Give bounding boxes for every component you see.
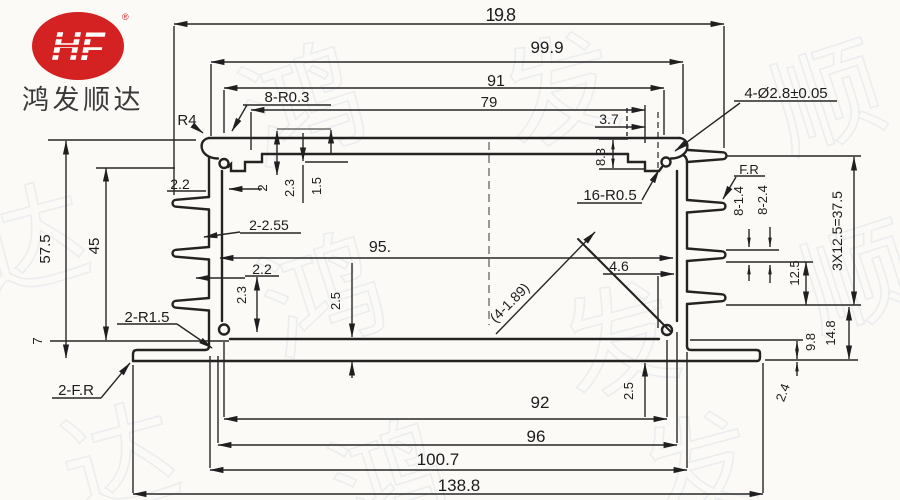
small dim line x331 — [330, 130, 332, 155]
svg-text:2.2: 2.2 — [252, 261, 272, 277]
right fin 4 — [687, 292, 725, 305]
svg-text:96: 96 — [527, 427, 546, 446]
dim 96 line — [218, 444, 677, 446]
svg-text:4.6: 4.6 — [609, 258, 629, 274]
svg-text:14.8: 14.8 — [823, 320, 838, 345]
dim 4.6 drop line — [657, 276, 659, 328]
bottom plate right end — [756, 350, 760, 357]
callout 16-R0.5 leader — [642, 170, 659, 200]
right channel centerline — [657, 112, 659, 168]
svg-text:138.8: 138.8 — [438, 476, 481, 495]
dim 91 line — [224, 87, 664, 89]
bottom plate top edge right — [687, 346, 756, 350]
dim 3.7 underline and arrow — [595, 126, 645, 128]
svg-text:3.7: 3.7 — [599, 111, 619, 127]
small dim crossbar y129 — [277, 128, 331, 130]
dim 2.2 top arrow — [229, 188, 262, 190]
dim 2-2.55 leader — [204, 232, 240, 237]
callout F.R underline — [734, 175, 765, 177]
dim 8-1.4 arrow upper — [748, 229, 750, 247]
dim 2.5 left line upper — [351, 263, 353, 337]
dim 2.5 bottom right arrow — [644, 363, 646, 417]
svg-text:2.3: 2.3 — [234, 286, 249, 304]
dim 19.8 line — [174, 23, 724, 25]
left wall outer segment 4 — [205, 311, 209, 351]
watermark — [216, 0, 384, 198]
ext x667 — [666, 340, 668, 417]
top plate bottom edge — [262, 153, 628, 155]
svg-text:2-F.R: 2-F.R — [58, 382, 94, 399]
dim 57.5 top extension — [48, 139, 196, 141]
callout 4-02.8 underline — [734, 100, 837, 102]
svg-text:100.7: 100.7 — [417, 450, 460, 469]
dim 9.8 line — [796, 341, 798, 359]
dim 45 line — [105, 168, 107, 340]
svg-text:91: 91 — [487, 73, 505, 90]
svg-text:8-2.4: 8-2.4 — [755, 185, 770, 215]
right wall outer top stub — [683, 155, 687, 162]
dim 8.3 top extension — [599, 138, 628, 140]
bottom plate bottom edge — [133, 357, 760, 361]
dim 79 line — [251, 109, 645, 111]
left top hook — [228, 154, 262, 171]
ext x224 — [223, 342, 225, 417]
svg-text:鸿发顺达: 鸿发顺达 — [22, 85, 144, 115]
left bottom screw notch — [219, 325, 229, 335]
dim 14.8 line — [848, 307, 850, 359]
svg-text:2.2: 2.2 — [170, 176, 190, 192]
left top screw notch — [220, 159, 229, 168]
dim 37.5 top extension — [726, 155, 861, 157]
dim 2-F.R leader — [101, 363, 130, 398]
svg-text:2.4: 2.4 — [773, 381, 793, 403]
right wall outer segment 1 — [686, 162, 688, 200]
dim 2.5 left line lower — [351, 362, 353, 378]
svg-text:2: 2 — [255, 184, 270, 191]
callout 16-R0.5 underline — [577, 202, 642, 204]
svg-text:F.R: F.R — [739, 162, 759, 177]
dim 57.5 line — [65, 141, 67, 358]
dim 91 right extension — [663, 90, 665, 135]
dim 2.3 low line — [256, 277, 258, 332]
dim 92 line — [224, 418, 667, 420]
small dim line x277 — [276, 131, 278, 175]
floor right extension — [690, 339, 803, 341]
svg-text:4-Ø2.8±0.05: 4-Ø2.8±0.05 — [744, 85, 827, 102]
dim 45 top extension — [96, 167, 175, 169]
ext x133 — [132, 365, 134, 493]
svg-text:2.5: 2.5 — [328, 292, 343, 310]
callout R4 leader — [195, 127, 203, 133]
left fin 3 — [173, 298, 209, 311]
diagonal rib line 1 — [578, 239, 660, 321]
dim 19.8 left extension — [173, 26, 175, 195]
svg-text:®: ® — [122, 12, 129, 22]
svg-text:57.5: 57.5 — [37, 234, 54, 263]
dim 99.9 line — [211, 61, 683, 63]
svg-text:3X12.5=37.5: 3X12.5=37.5 — [829, 191, 845, 271]
dim 2.2 mid arrow — [196, 277, 245, 279]
svg-text:45: 45 — [86, 238, 103, 255]
callout 4-1.89 leader — [496, 232, 595, 334]
right top hook — [628, 154, 662, 171]
small dim line x303 — [302, 133, 304, 161]
right fin 1 — [687, 150, 726, 162]
right fin 3 — [687, 249, 725, 262]
svg-text:16-R0.5: 16-R0.5 — [583, 187, 636, 204]
svg-text:R4: R4 — [177, 112, 196, 129]
svg-text:7: 7 — [30, 337, 45, 344]
left fin 2 — [173, 247, 209, 260]
dim 2-F.R underline — [52, 397, 101, 399]
dim 8-1.4 arrow lower — [748, 265, 750, 281]
dim 8-2.4 arrow lower — [769, 265, 771, 283]
dim 37.5 line — [853, 157, 855, 305]
dim 4.6 arrow — [635, 273, 674, 275]
dim 2.2 mid underline — [245, 275, 279, 277]
svg-text:19.8: 19.8 — [485, 5, 516, 25]
svg-text:1.5: 1.5 — [309, 177, 324, 195]
left wall outer segment 1 — [208, 157, 210, 197]
dim 8.3 line — [612, 140, 614, 168]
dim 2.4 right arrow — [796, 362, 798, 376]
bottom edge right extension — [765, 359, 858, 361]
callout 4-02.8 leader — [675, 103, 740, 151]
dim 79 right extension — [644, 105, 646, 143]
right bottom screw notch — [662, 325, 672, 335]
svg-text:95.: 95. — [369, 239, 391, 256]
svg-text:99.9: 99.9 — [530, 38, 563, 57]
dim 99.9 left extension — [210, 64, 212, 136]
small dim line x303 tail — [302, 165, 304, 203]
extension y162 — [305, 161, 348, 163]
dim 8.3 bottom extension — [599, 168, 645, 170]
dim 2.2 top underline — [167, 190, 206, 192]
right top screw notch — [662, 158, 671, 167]
dim 8-2.4 arrow upper — [769, 227, 771, 247]
right fin 2 — [687, 200, 725, 213]
ext x763 — [762, 363, 764, 493]
svg-text:2.3: 2.3 — [282, 179, 297, 197]
svg-text:12.5: 12.5 — [787, 260, 802, 285]
dim 3.7 extension dashed — [626, 108, 628, 136]
inner floor line — [230, 338, 659, 340]
svg-text:2.5: 2.5 — [621, 382, 636, 400]
bottom plate top edge left — [133, 350, 205, 354]
left wall outer segment 2 — [208, 210, 210, 248]
svg-text:8-1.4: 8-1.4 — [731, 186, 746, 216]
ext x210 — [209, 356, 211, 468]
dim 95 line — [220, 257, 673, 259]
dim 2-R1.5 leader — [177, 324, 212, 348]
svg-text:(4-1.89): (4-1.89) — [486, 279, 532, 325]
ext x218 — [217, 356, 219, 443]
svg-text:79: 79 — [481, 94, 498, 111]
dim 91 left extension — [223, 90, 225, 133]
ext x687 — [686, 352, 688, 468]
dim 12.5 line — [805, 262, 807, 305]
dim 2-R1.5 underline — [117, 323, 177, 325]
right wall outer segment 2 — [686, 213, 688, 249]
left fin 1 — [173, 197, 209, 210]
callout 8-R0.3 underline — [243, 104, 331, 106]
svg-text:92: 92 — [531, 393, 550, 412]
fin3 top extension — [726, 249, 779, 251]
right wall inner — [676, 171, 678, 321]
floor left extension — [50, 340, 229, 342]
fin3 bottom extension — [726, 261, 813, 263]
svg-text:2-2.55: 2-2.55 — [249, 217, 289, 233]
right wall outer segment 3 — [686, 261, 688, 292]
dim 79 left extension — [250, 112, 252, 150]
top plate left bulb R4 — [202, 138, 218, 159]
logo HF — [32, 12, 129, 80]
dim 99.9 right extension — [682, 64, 684, 134]
diagonal rib line 2 — [588, 249, 670, 331]
dim 4.6 underline — [603, 273, 635, 275]
ext x677 — [676, 332, 678, 443]
dim 19.8 right extension — [723, 26, 725, 148]
bottom plate left end — [132, 354, 134, 361]
dim 100.7 line — [210, 469, 687, 471]
left wall outer segment 3 — [208, 260, 210, 299]
svg-text:8.3: 8.3 — [593, 148, 608, 166]
centerline vertical — [488, 142, 490, 325]
svg-text:2-R1.5: 2-R1.5 — [124, 309, 169, 326]
callout 8-R0.3 leader — [232, 105, 247, 131]
svg-text:9.8: 9.8 — [803, 333, 818, 351]
callout F.R leader — [723, 177, 736, 199]
left wall inner — [221, 171, 223, 321]
svg-text:8-R0.3: 8-R0.3 — [264, 89, 309, 106]
top plate right bulb — [671, 138, 687, 159]
extension y305 — [726, 304, 861, 306]
dim 138.8 line — [133, 493, 763, 495]
top plate top edge — [209, 137, 680, 139]
right wall outer segment 4 — [686, 304, 688, 346]
dim 2-2.55 underline — [240, 232, 301, 234]
